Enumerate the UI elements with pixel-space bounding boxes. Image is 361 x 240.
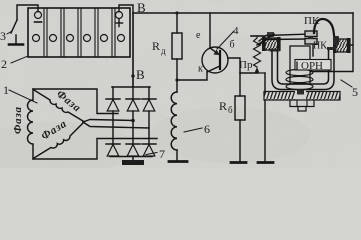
- field winding 6 coil: [171, 92, 177, 150]
- leader line 4: [217, 31, 234, 49]
- phase wire from bottom vertex: [33, 139, 157, 160]
- svg-text:5: 5: [352, 85, 358, 99]
- relay right terminal link: [350, 44, 353, 46]
- svg-text:ОРН: ОРН: [301, 60, 323, 72]
- diode VD5: [126, 144, 140, 156]
- leader line 5: [341, 80, 352, 87]
- frame top flanges: [270, 49, 280, 52]
- svg-text:е: е: [196, 30, 201, 41]
- switch 3 blade: [11, 20, 17, 33]
- ground under winding 6: [169, 160, 187, 163]
- svg-text:В: В: [136, 67, 145, 82]
- svg-text:4: 4: [233, 25, 239, 37]
- rectifier 7: top positive bus: [112, 86, 150, 88]
- relay ground wire: [264, 73, 266, 162]
- winding phase bottom (coil): [34, 123, 83, 158]
- transistor collector: [207, 66, 220, 72]
- leader line 3: [7, 31, 12, 34]
- clamp at hump foot: [333, 36, 339, 45]
- diode VD2: [126, 87, 140, 144]
- field winding lower lead: [176, 150, 178, 161]
- transistor 4: emitter lead: [209, 13, 211, 48]
- node B wire down to rectifier: [132, 13, 134, 87]
- svg-text:1: 1: [3, 83, 9, 97]
- relay left terminal bobbin: [262, 32, 281, 51]
- svg-text:ПК: ПК: [304, 15, 320, 27]
- node: right vertex fork to phase lines: [83, 120, 133, 123]
- svg-text:R: R: [219, 99, 227, 113]
- fixed contact bracket: [312, 45, 314, 56]
- rectifier bottom bus: [110, 156, 152, 158]
- battery cell dividers: [44, 8, 115, 57]
- transistor emitter arrow: [210, 48, 219, 55]
- resistor Rd lead: [176, 13, 178, 33]
- svg-text:R: R: [152, 39, 160, 53]
- switch ground bar: [9, 43, 23, 46]
- armature wrap at left bobbin: [257, 34, 274, 45]
- svg-text:д: д: [161, 46, 166, 56]
- resistor Rb lower lead: [239, 120, 241, 162]
- fuse bottom hook to ground wire: [257, 72, 265, 74]
- svg-text:7: 7: [159, 147, 165, 161]
- paper background: [0, 0, 361, 168]
- pedestal bolt under plate: [290, 100, 314, 107]
- battery 2: outer case: [28, 8, 130, 57]
- resistor Rb body: [235, 96, 245, 120]
- svg-text:б: б: [228, 105, 233, 115]
- resistor Rd lower lead: [176, 59, 178, 80]
- transistor 4 circle: [202, 47, 228, 73]
- relay core: [290, 46, 310, 84]
- armature spring hump: [314, 19, 335, 43]
- rectifier ground: [132, 157, 134, 161]
- relay base plate hatched: [264, 92, 340, 101]
- svg-text:Фаза: Фаза: [12, 106, 24, 134]
- top bus: [133, 12, 353, 14]
- resistor Rb upper lead: [239, 72, 241, 96]
- contact stack PK/NK: [305, 31, 317, 37]
- battery cell caps: [33, 35, 125, 42]
- svg-text:В: В: [137, 0, 146, 15]
- relay right terminal bobbin: [333, 38, 351, 53]
- diode VD1: [106, 87, 120, 144]
- leader line 2: [11, 56, 28, 63]
- svg-text:к: к: [198, 64, 203, 75]
- field winding 6 lead from collector junction: [176, 80, 178, 92]
- wire battery plus to bus: [119, 5, 133, 13]
- junction dot phase-to-VD2 column: [131, 119, 135, 123]
- base node wire to fuse and Rb: [240, 72, 257, 74]
- battery positive terminal: [116, 12, 123, 19]
- generator stator: phase wire from top vertex: [33, 89, 118, 114]
- relay armature arm: [259, 34, 312, 41]
- battery negative terminal: [35, 12, 42, 19]
- ground at relay: [258, 161, 273, 164]
- svg-text:6: 6: [204, 122, 210, 136]
- relay coil turns ORN: [286, 69, 313, 89]
- relay 5: feed rectangle right edge: [300, 13, 353, 72]
- relay yoke frame: [272, 50, 334, 90]
- leader line 1: [9, 90, 37, 103]
- node B junction dot: [131, 74, 134, 77]
- leader line 7: [146, 153, 157, 155]
- winding phase left (coil): [28, 89, 34, 159]
- ground under Rb: [231, 161, 246, 164]
- svg-text:б: б: [230, 40, 235, 51]
- svg-text:Пр: Пр: [239, 59, 253, 71]
- diode VD3: [142, 87, 156, 144]
- leader line 6: [184, 128, 202, 132]
- resistor Rd body: [172, 33, 182, 59]
- ORN label box: [295, 60, 331, 71]
- base wire: [228, 58, 240, 72]
- junction dot Rd bottom / collector node: [175, 78, 178, 81]
- diode VD4: [106, 144, 120, 156]
- svg-text:2: 2: [1, 57, 7, 71]
- wire battery minus to switch: [17, 5, 38, 20]
- winding phase top (coil): [34, 90, 83, 121]
- plate notch: [295, 91, 306, 101]
- switch lower lead: [15, 35, 17, 44]
- fuse Pr top bar: [251, 35, 264, 37]
- transistor base bar: [219, 51, 221, 69]
- junction dot Rd top at bus: [175, 11, 178, 14]
- diode VD6: [142, 144, 156, 156]
- svg-text:НК: НК: [313, 41, 327, 52]
- svg-text:3: 3: [0, 29, 6, 43]
- fuse Pr zigzag: [254, 36, 261, 67]
- collector wire to field winding: [177, 72, 207, 80]
